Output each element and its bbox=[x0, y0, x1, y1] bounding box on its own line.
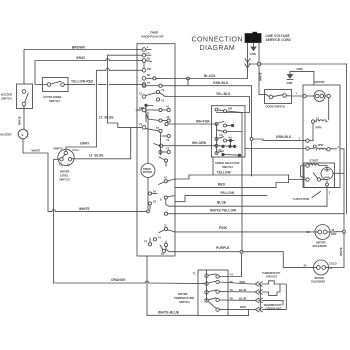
wire WHITE-BLUE bbox=[147, 314, 198, 316]
timer contact T9 bbox=[159, 157, 168, 166]
wire yellow/red riser into start contacts bbox=[289, 175, 306, 183]
service cord (black block) bbox=[245, 33, 262, 43]
wire door switch to motor bbox=[286, 95, 303, 97]
svg-text:A7: A7 bbox=[218, 148, 222, 152]
svg-text:YEL-BLK: YEL-BLK bbox=[216, 92, 231, 96]
svg-text:BROWN: BROWN bbox=[72, 46, 85, 50]
hop on GRAY over bus bbox=[106, 59, 110, 61]
water temp contacts right bbox=[216, 275, 219, 312]
svg-text:RED: RED bbox=[218, 183, 226, 187]
title CONNECTION DIAGRAM bbox=[192, 36, 243, 52]
svg-text:A1: A1 bbox=[166, 105, 170, 109]
svg-text:7B: 7B bbox=[147, 73, 150, 77]
timer terminal 21 bbox=[139, 92, 157, 99]
thermostat row 2 bimetal bbox=[262, 284, 280, 295]
wire buzzer to white bus bbox=[23, 139, 48, 210]
wire lt blue riser bbox=[130, 127, 132, 158]
svg-text:RED: RED bbox=[240, 280, 246, 284]
svg-text:SWITCH: SWITCH bbox=[179, 300, 190, 304]
svg-text:14: 14 bbox=[67, 163, 70, 167]
svg-text:WH-PUR: WH-PUR bbox=[196, 120, 210, 124]
svg-text:T3: T3 bbox=[156, 126, 160, 130]
wire to timer row bbox=[108, 54, 137, 56]
svg-text:21: 21 bbox=[164, 224, 167, 228]
svg-text:BUZZER: BUZZER bbox=[1, 93, 12, 97]
wire water level to lt blue riser bbox=[72, 158, 131, 160]
wire service line N (white) bbox=[258, 43, 260, 95]
svg-text:MOTOR: MOTOR bbox=[315, 80, 325, 84]
svg-text:4PW: 4PW bbox=[318, 143, 324, 147]
svg-text:T7: T7 bbox=[147, 81, 151, 85]
timer contact pink bbox=[159, 224, 175, 233]
hop over orange bus bbox=[52, 210, 56, 212]
hot water solenoid L1 bbox=[315, 225, 330, 240]
label WATER SOLENOID bbox=[313, 241, 327, 249]
water temp left bus bbox=[206, 276, 208, 301]
svg-text:22: 22 bbox=[307, 230, 310, 234]
wire main to rpm winding bbox=[328, 98, 330, 120]
svg-text:SOLENOID: SOLENOID bbox=[313, 244, 327, 248]
svg-text:T4: T4 bbox=[230, 273, 234, 277]
svg-text:GRAY: GRAY bbox=[76, 56, 86, 60]
wire rpm to tap bbox=[312, 123, 314, 140]
svg-text:START: START bbox=[310, 159, 319, 163]
svg-text:EXTRA RINSE: EXTRA RINSE bbox=[44, 95, 62, 99]
timer contact 8 bbox=[160, 196, 175, 207]
timer contact A2 bbox=[146, 112, 171, 122]
extra rinse switch SW2 bbox=[43, 78, 69, 92]
svg-text:T4: T4 bbox=[158, 236, 162, 240]
svg-text:12: 12 bbox=[164, 176, 167, 180]
node black junction bbox=[187, 77, 190, 80]
svg-text:THERMOSTAT: THERMOSTAT bbox=[262, 271, 281, 275]
svg-text:WH-ORN: WH-ORN bbox=[192, 141, 207, 145]
wire water level to orange bus bbox=[54, 159, 60, 283]
timer contact Y4 bbox=[162, 134, 170, 142]
svg-text:WHITE-BLUE: WHITE-BLUE bbox=[158, 311, 179, 315]
svg-text:RPM: RPM bbox=[316, 126, 323, 130]
svg-text:24: 24 bbox=[153, 190, 156, 194]
wire WH-PUR to speed selector bbox=[175, 123, 217, 125]
svg-text:SWITCH: SWITCH bbox=[59, 178, 70, 182]
svg-text:DIAGRAM: DIAGRAM bbox=[200, 45, 236, 52]
water temp flippers bbox=[208, 274, 216, 309]
svg-text:SPEED SELECTOR: SPEED SELECTOR bbox=[215, 161, 240, 165]
wire hot right to bus bbox=[330, 231, 343, 233]
cabinet box right edge bbox=[346, 64, 348, 214]
pin 21 COLD bbox=[329, 262, 337, 271]
wire capacitor bottom bbox=[326, 180, 328, 184]
svg-text:GRAY: GRAY bbox=[80, 142, 90, 146]
label WATER TEMPERATURE SWITCH bbox=[174, 292, 194, 304]
svg-text:PINK: PINK bbox=[219, 226, 228, 230]
speed selector contact row 4 bbox=[215, 136, 234, 143]
start winding bbox=[306, 164, 327, 168]
svg-text:A3: A3 bbox=[141, 106, 145, 110]
wire box bottom hook bbox=[228, 310, 249, 316]
wire GRN-BLK bbox=[175, 86, 252, 176]
pins T8 BLUE bbox=[230, 297, 247, 301]
svg-text:AIR HOT: AIR HOT bbox=[266, 275, 277, 279]
wire service line L1 (to BLACK) bbox=[247, 43, 249, 79]
svg-text:BLUE: BLUE bbox=[239, 288, 247, 292]
speed selector contact row 1 bbox=[215, 107, 242, 113]
svg-text:WATER: WATER bbox=[178, 292, 188, 296]
wire RED to thermostat bbox=[219, 309, 256, 311]
timer terminal T2 bbox=[160, 245, 166, 256]
svg-text:WHITE: WHITE bbox=[18, 116, 22, 125]
node capacitor 2 bbox=[326, 183, 329, 186]
timer contact w-y bbox=[164, 212, 175, 215]
timer drop to white-blue bbox=[146, 256, 148, 315]
svg-text:WHITE: WHITE bbox=[32, 149, 41, 153]
wire T8 BLUE to thermostat bbox=[219, 299, 256, 301]
wire yellow from timer bbox=[175, 175, 189, 179]
timer contact Y2 bbox=[159, 147, 170, 154]
node N connector bbox=[257, 62, 261, 66]
timer contact T3 bbox=[146, 126, 163, 133]
timer terminal T5 bbox=[136, 123, 146, 130]
svg-text:SWITCH: SWITCH bbox=[1, 97, 12, 101]
svg-text:GRN-BLK: GRN-BLK bbox=[276, 135, 292, 139]
timer motor M bbox=[141, 164, 155, 178]
label WATER LEVEL SWITCH bbox=[59, 170, 70, 182]
svg-text:WATER: WATER bbox=[316, 241, 326, 245]
motor box bbox=[303, 85, 340, 188]
solenoid feed bus bbox=[343, 214, 345, 268]
svg-text:YELLOW: YELLOW bbox=[217, 171, 231, 175]
svg-text:SWITCH: SWITCH bbox=[222, 165, 233, 169]
svg-text:LT. BLUE: LT. BLUE bbox=[89, 154, 104, 158]
wire YELLOW-RED bbox=[64, 83, 137, 85]
start switch box bbox=[304, 163, 335, 188]
timer contact 24 bbox=[148, 190, 157, 196]
timer riser motor top bbox=[147, 112, 149, 163]
svg-text:TIMER: TIMER bbox=[150, 31, 158, 35]
timer contact 23 bbox=[148, 200, 156, 210]
svg-text:CONNECTION: CONNECTION bbox=[192, 36, 243, 43]
speed selector switch box bbox=[212, 106, 246, 157]
wire YEL-BLK bbox=[175, 97, 250, 113]
wire to timer row (hop over 107.6) bbox=[96, 69, 137, 71]
wire WHITE-YELLOW (timer to solenoid bus) bbox=[175, 213, 344, 215]
buzzer switch SW1 bbox=[17, 84, 33, 109]
pins T9 BLUE bbox=[230, 288, 247, 292]
svg-text:GRN-BLK: GRN-BLK bbox=[213, 81, 229, 85]
svg-text:COLD: COLD bbox=[329, 262, 337, 266]
svg-text:21: 21 bbox=[139, 92, 142, 96]
svg-text:WHITE: WHITE bbox=[259, 72, 263, 81]
label WATER SOLENOID bbox=[311, 276, 325, 284]
wire PURPLE (timer to cold solenoid) bbox=[175, 252, 314, 268]
svg-text:ORANGE: ORANGE bbox=[111, 278, 126, 282]
wire motor 3 to solenoid bus bbox=[340, 149, 344, 214]
wire buzzer switch to buzzer bbox=[23, 106, 25, 129]
label THERMOSTAT AIR HOT bbox=[262, 271, 281, 279]
connector arrows on L1 bbox=[245, 59, 250, 63]
label LINE VOLTAGE SERVICE CORD bbox=[266, 34, 292, 42]
ground (service cord GND) bbox=[251, 43, 256, 51]
start contacts bbox=[306, 173, 327, 181]
timer terminal 1 bbox=[136, 45, 151, 51]
node grn-blk junction bbox=[250, 138, 253, 141]
hop over timer drop bbox=[145, 281, 149, 283]
svg-text:SWITCH: SWITCH bbox=[49, 99, 60, 103]
svg-text:SERVICE CORD: SERVICE CORD bbox=[266, 38, 292, 42]
speed selector left bus bbox=[216, 124, 218, 153]
node purple junction bbox=[240, 250, 243, 253]
wire WHITE to timer (with hop) bbox=[48, 210, 147, 211]
svg-text:17: 17 bbox=[316, 117, 319, 121]
wire PINK (timer to hot solenoid) bbox=[175, 231, 315, 233]
wire white to door switch bbox=[259, 94, 266, 96]
timer contact row GRN-BLK out bbox=[142, 84, 175, 88]
timer contact wh-orn bbox=[154, 144, 175, 148]
wire purple into top contact bbox=[219, 276, 241, 278]
svg-text:MOTOR: MOTOR bbox=[143, 171, 152, 174]
timer contact T6 bbox=[144, 238, 152, 246]
buzzer BZ bbox=[18, 129, 28, 139]
timer contact T4 bbox=[153, 236, 161, 241]
ground (motor) bbox=[287, 75, 293, 80]
timer terminal T7 bbox=[136, 81, 151, 86]
speed selector contact row 5 bbox=[215, 142, 236, 148]
svg-text:Y1: Y1 bbox=[161, 88, 165, 92]
bus vertical (lt wires) bbox=[95, 70, 97, 147]
wire WH-ORN to speed selector bbox=[175, 145, 217, 147]
wire BLUE (timer to capacitor node) bbox=[175, 205, 327, 207]
wire YELLOW (speed selector low to start) bbox=[189, 157, 289, 175]
wire RED (timer to start switch) bbox=[175, 183, 289, 188]
timer contact Y3 bbox=[156, 98, 164, 103]
thermostat box with bimetal bump bbox=[260, 281, 286, 310]
svg-text:EMPTY: EMPTY bbox=[54, 147, 63, 151]
svg-text:DOOR SWITCH: DOOR SWITCH bbox=[266, 105, 285, 109]
svg-text:20: 20 bbox=[304, 264, 307, 268]
label THERMOSTAT GREEN HOT bbox=[264, 303, 283, 310]
label EXTRA RINSE SWITCH bbox=[44, 95, 62, 103]
wire BLACK bbox=[175, 78, 248, 80]
svg-text:21: 21 bbox=[330, 266, 333, 270]
svg-text:21: 21 bbox=[332, 228, 335, 232]
svg-text:T5: T5 bbox=[139, 123, 143, 127]
pin 21 HOT bbox=[331, 228, 337, 236]
svg-text:L1: L1 bbox=[147, 51, 151, 55]
pins T6 RED bbox=[230, 280, 246, 284]
timer terminal TM bbox=[136, 67, 152, 72]
water level switch PS1 bbox=[58, 149, 74, 165]
wire GRAY bbox=[35, 61, 137, 85]
svg-text:FULL: FULL bbox=[73, 148, 80, 152]
wire capacitor node to blue bbox=[326, 186, 328, 206]
svg-text:WATER: WATER bbox=[60, 170, 70, 174]
svg-text:GND: GND bbox=[250, 52, 256, 56]
timer tap dot bbox=[141, 104, 154, 122]
svg-text:WHITE-YELLOW: WHITE-YELLOW bbox=[210, 209, 236, 213]
water temp top stub bbox=[206, 270, 208, 274]
motor terminal 2 row / low speed winding bbox=[245, 143, 340, 151]
wire ORANGE bbox=[54, 282, 205, 285]
svg-text:GRN: GRN bbox=[297, 67, 303, 71]
start capacitor circle bbox=[321, 168, 333, 180]
svg-text:T2: T2 bbox=[161, 252, 165, 256]
wire cold right to bus bbox=[329, 267, 345, 269]
speed selector contact row 6 bbox=[215, 148, 241, 156]
svg-text:12: 12 bbox=[59, 163, 62, 167]
speed selector bus to water temp bbox=[241, 157, 244, 277]
door switch contacts bbox=[266, 94, 286, 99]
svg-text:A2: A2 bbox=[166, 115, 170, 119]
label SPEED SELECTOR SWITCH bbox=[215, 161, 240, 169]
wire T9 BLUE to thermostat bbox=[219, 291, 256, 293]
svg-text:Y3: Y3 bbox=[161, 99, 165, 103]
svg-text:LT. BLUE: LT. BLUE bbox=[99, 116, 114, 120]
timer contact purple bbox=[164, 241, 175, 252]
wire T6 RED to thermostat bbox=[219, 282, 256, 284]
svg-text:AA: AA bbox=[228, 136, 232, 140]
svg-text:LEVEL: LEVEL bbox=[60, 174, 69, 178]
label TIMER KNOB-PUSH OFF bbox=[142, 31, 165, 39]
svg-text:*CAPACITOR: *CAPACITOR bbox=[293, 197, 310, 201]
timer terminal L1 bbox=[136, 51, 151, 57]
water temperature switch box bbox=[198, 270, 228, 316]
capacitor leader line bbox=[312, 192, 321, 198]
wire BROWN bbox=[24, 50, 137, 85]
wire GRAY to water level switch bbox=[66, 147, 97, 151]
svg-text:A3: A3 bbox=[219, 133, 223, 137]
svg-text:E: E bbox=[22, 133, 24, 137]
svg-text:YELLOW-RED: YELLOW-RED bbox=[71, 80, 94, 84]
motor terminal 1 (grn-blk) bbox=[252, 137, 314, 143]
start winding loop to contact bbox=[301, 166, 306, 178]
thermostat row 3 bbox=[262, 300, 283, 305]
motor rpm winding bbox=[311, 117, 327, 124]
svg-text:SOLENOID: SOLENOID bbox=[311, 280, 325, 284]
timer contact Y1 bbox=[156, 88, 175, 97]
svg-text:2B: 2B bbox=[147, 57, 150, 61]
svg-text:RED: RED bbox=[240, 305, 246, 309]
motor main winding bbox=[303, 91, 331, 102]
svg-text:WHITE: WHITE bbox=[339, 247, 343, 256]
speed selector contact row 3 bbox=[217, 130, 242, 137]
timer terminal 2B bbox=[136, 57, 152, 63]
timer link rows bbox=[143, 62, 145, 68]
door switch box bbox=[265, 90, 292, 104]
speed selector internal bus bbox=[241, 113, 243, 158]
svg-text:TEMPERATURE: TEMPERATURE bbox=[174, 296, 194, 300]
svg-text:YELLOW: YELLOW bbox=[220, 191, 234, 195]
svg-text:T1: T1 bbox=[193, 272, 197, 276]
svg-text:KNOB-PUSH OFF: KNOB-PUSH OFF bbox=[142, 34, 165, 38]
wire LT. BLUE to timer bbox=[108, 123, 137, 127]
cabinet box top edge bbox=[248, 63, 347, 65]
timer contact row BLACK out bbox=[142, 77, 175, 81]
svg-text:BLACK: BLACK bbox=[204, 74, 216, 78]
svg-text:BLUE: BLUE bbox=[239, 297, 247, 301]
svg-text:T6: T6 bbox=[144, 240, 148, 244]
speed selector contact row 2 bbox=[215, 122, 234, 128]
svg-text:T6: T6 bbox=[230, 280, 234, 284]
bus vertical 2 bbox=[107, 55, 109, 123]
label BUZZER SWITCH bbox=[1, 93, 12, 101]
svg-text:GND: GND bbox=[287, 81, 293, 85]
svg-text:PURPLE: PURPLE bbox=[216, 246, 230, 250]
svg-text:23: 23 bbox=[153, 200, 156, 204]
svg-text:Y2: Y2 bbox=[166, 147, 170, 151]
timer box bbox=[137, 44, 175, 256]
svg-text:BUZZER: BUZZER bbox=[1, 133, 12, 137]
wire YELLOW 2 (timer stub) bbox=[175, 196, 267, 202]
timer riser contact column bbox=[160, 133, 162, 155]
timer contact 12 bbox=[159, 176, 176, 185]
wire black to grn-blk row bbox=[187, 79, 189, 86]
svg-text:HOT: HOT bbox=[331, 232, 337, 236]
timer riser motor bottom to white node bbox=[147, 178, 149, 212]
svg-text:Y4: Y4 bbox=[166, 138, 170, 142]
thermostat connector arrows bbox=[255, 282, 262, 312]
svg-text:T9: T9 bbox=[230, 288, 234, 292]
timer contact A1 bbox=[146, 105, 170, 112]
timer contact wh-pur bbox=[165, 122, 175, 125]
cold water solenoid L2 bbox=[314, 260, 329, 275]
svg-text:T8: T8 bbox=[230, 297, 234, 301]
svg-text:BLUE: BLUE bbox=[217, 201, 226, 205]
timer terminal A3 bbox=[136, 106, 146, 112]
svg-text:WHITE: WHITE bbox=[79, 207, 90, 211]
motor ground pigtail GRN bbox=[290, 71, 314, 85]
svg-text:GREEN HOT: GREEN HOT bbox=[266, 306, 282, 310]
node hot junction bbox=[343, 230, 346, 233]
node white-timer junction bbox=[147, 210, 150, 213]
water temp contacts left bbox=[205, 274, 208, 302]
svg-text:WATER: WATER bbox=[315, 276, 325, 280]
wire start circle to bus bbox=[333, 172, 344, 174]
svg-text:WA: WA bbox=[228, 107, 232, 111]
